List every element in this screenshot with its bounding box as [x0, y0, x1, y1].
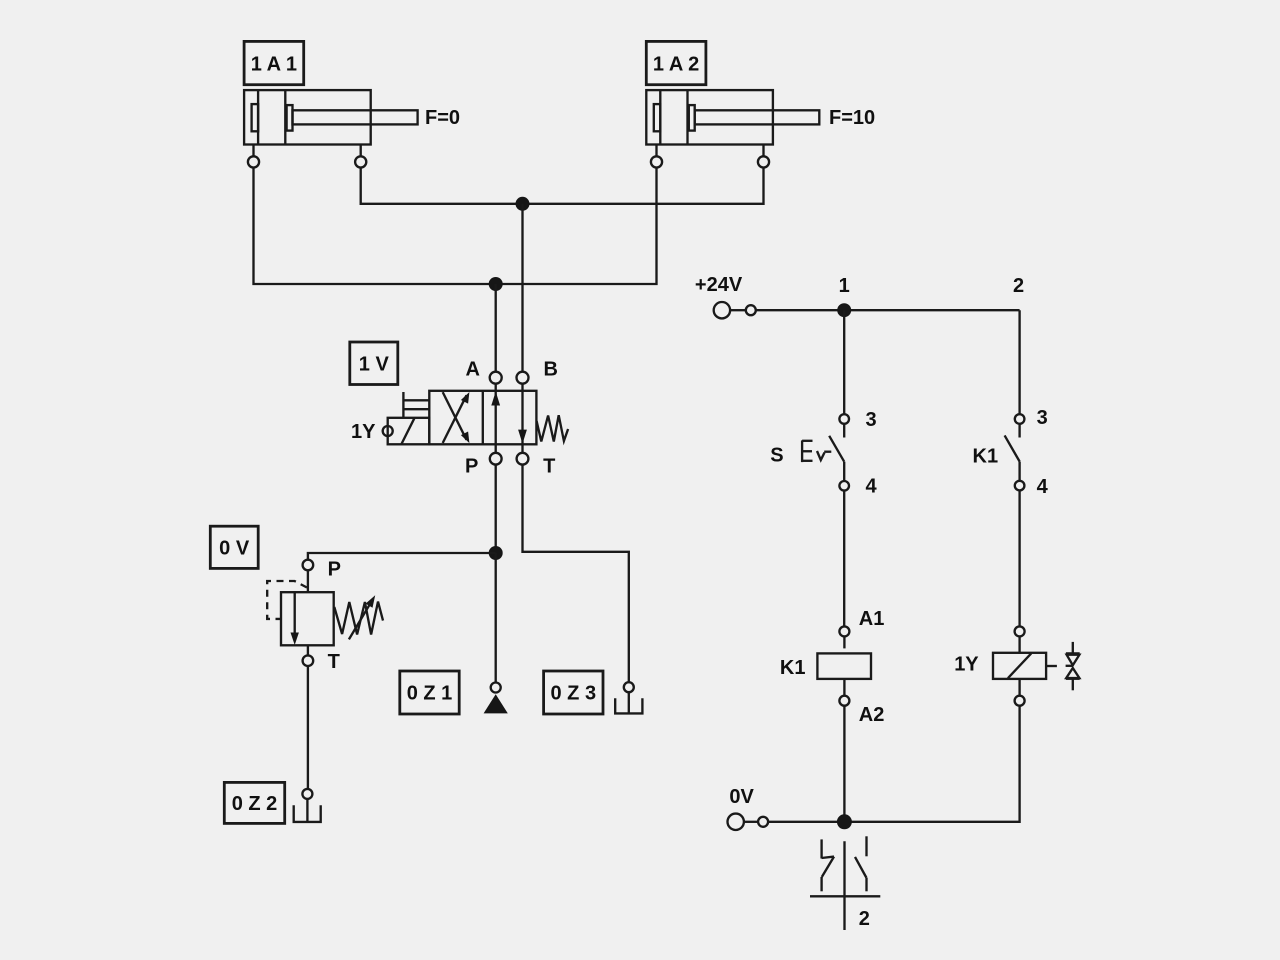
terminal 0V: [728, 814, 769, 830]
wire T relief to tank 0Z2: [307, 645, 309, 655]
label box 0Z2: [224, 782, 284, 823]
svg-text:3: 3: [866, 409, 877, 431]
svg-text:K1: K1: [780, 657, 806, 679]
valve 1V label box: [350, 342, 398, 385]
wire col1 mid: [843, 491, 845, 627]
svg-text:0V: 0V: [729, 786, 754, 808]
svg-text:1 A 2: 1 A 2: [653, 54, 699, 76]
svg-text:0 Z 2: 0 Z 2: [232, 793, 278, 815]
contact mirror K1: [810, 836, 880, 930]
wire T to tank 0Z3: [523, 465, 629, 683]
spring 1V: [537, 415, 569, 441]
svg-text:0 V: 0 V: [219, 538, 250, 560]
switch S with detent: [802, 414, 849, 490]
svg-text:1 V: 1 V: [359, 354, 390, 376]
wire junction to port B: [521, 204, 523, 372]
contact K1: [1005, 414, 1025, 490]
wire rod-side rail: [361, 168, 764, 204]
cylinder 1A2: [646, 41, 819, 167]
wire col1 top: [843, 310, 845, 414]
svg-text:0 Z 1: 0 Z 1: [407, 683, 453, 705]
cylinder 1A1: [244, 41, 418, 167]
svg-text:B: B: [543, 358, 557, 380]
svg-text:1Y: 1Y: [954, 653, 979, 675]
wire junction to port A: [495, 284, 497, 372]
svg-text:K1: K1: [973, 446, 999, 468]
svg-text:1 A 1: 1 A 1: [251, 54, 297, 76]
svg-text:1: 1: [839, 275, 850, 297]
svg-text:F=10: F=10: [829, 107, 875, 129]
label box 0V: [210, 526, 258, 568]
svg-text:A: A: [465, 358, 479, 380]
svg-text:P: P: [465, 456, 478, 478]
svg-text:0 Z 3: 0 Z 3: [551, 683, 597, 705]
svg-text:T: T: [543, 456, 555, 478]
svg-text:2: 2: [859, 908, 870, 930]
node junction A-rail: [489, 277, 503, 291]
node junction B-rail: [516, 197, 530, 211]
node junction 0V: [837, 814, 852, 829]
tank 0Z3: [615, 682, 642, 713]
node junction P: [489, 546, 503, 560]
svg-text:4: 4: [1037, 476, 1049, 498]
tank 0Z2: [294, 789, 321, 822]
svg-text:S: S: [770, 445, 783, 467]
solenoid pilot stages 1V: [403, 392, 429, 418]
wire col2 mid: [1018, 490, 1020, 626]
svg-text:+24V: +24V: [695, 274, 743, 296]
wire col1 bottom: [843, 706, 845, 822]
label box 0Z1: [400, 671, 459, 714]
wire P junction to source: [495, 553, 497, 683]
valve 1V: [429, 372, 536, 465]
solenoid 1Y at valve: [383, 418, 430, 445]
svg-text:1Y: 1Y: [351, 421, 376, 443]
svg-text:3: 3: [1037, 407, 1048, 429]
pressure source 0Z1: [484, 683, 508, 714]
adjust arrow 0V: [349, 595, 375, 639]
node junction rail col1: [837, 303, 851, 317]
relay coil K1: [817, 626, 871, 705]
wire P to junction: [495, 465, 497, 553]
svg-text:2: 2: [1013, 275, 1024, 297]
svg-text:P: P: [328, 558, 341, 580]
terminal +24V: [714, 302, 756, 318]
svg-text:F=0: F=0: [425, 107, 460, 129]
spring 0V: [334, 602, 383, 635]
label box 0Z3: [544, 671, 603, 714]
suppressor diode: [1046, 642, 1080, 690]
wire P junction to relief valve: [308, 553, 496, 560]
wire col2 bottom: [844, 706, 1019, 822]
wire col2 top: [1018, 310, 1020, 414]
wire +24V rail: [756, 309, 1020, 311]
solenoid 1Y electrical: [993, 626, 1046, 705]
svg-text:A1: A1: [859, 608, 885, 630]
svg-text:4: 4: [866, 476, 878, 498]
svg-text:T: T: [328, 651, 340, 673]
svg-text:A2: A2: [859, 704, 885, 726]
wire piston-side rail: [254, 168, 657, 285]
relief valve 0V: [267, 560, 334, 646]
wire 0V rail: [768, 821, 844, 823]
